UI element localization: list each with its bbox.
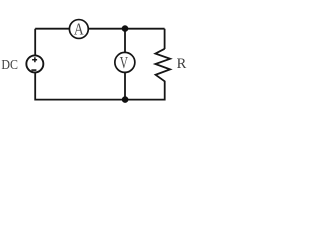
wire: outer loop (left, top, right, bottom) bbox=[35, 29, 165, 100]
node: bottom junction bbox=[122, 96, 129, 103]
DC source V1 bbox=[26, 55, 43, 72]
DC source minus terminal bbox=[31, 69, 36, 71]
svg-text:DC: DC bbox=[1, 57, 18, 72]
svg-text:V: V bbox=[120, 53, 128, 72]
ammeter U1 bbox=[69, 20, 88, 39]
voltmeter U2 bbox=[115, 52, 135, 72]
node: top junction bbox=[122, 25, 129, 32]
svg-text:R: R bbox=[177, 56, 187, 72]
DC source plus terminal bbox=[32, 57, 37, 62]
resistor R zigzag bbox=[155, 49, 170, 82]
wire: middle branch through voltmeter bbox=[124, 29, 126, 100]
svg-text:A: A bbox=[74, 20, 84, 39]
